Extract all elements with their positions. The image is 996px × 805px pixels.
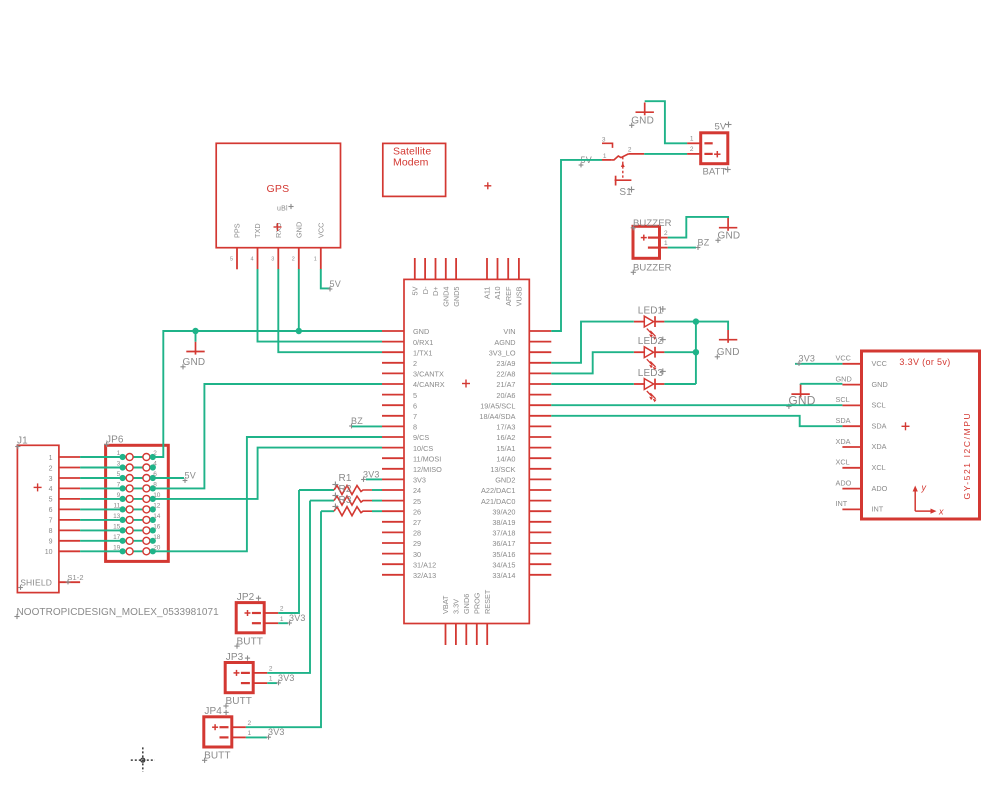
svg-text:VIN: VIN bbox=[503, 327, 515, 336]
svg-text:ADO: ADO bbox=[872, 484, 888, 493]
svg-text:33/A14: 33/A14 bbox=[492, 571, 515, 580]
svg-text:3V3: 3V3 bbox=[799, 354, 816, 364]
svg-text:18/A4/SDA: 18/A4/SDA bbox=[479, 412, 515, 421]
svg-text:2: 2 bbox=[292, 257, 295, 263]
svg-text:18: 18 bbox=[153, 534, 161, 541]
svg-text:8: 8 bbox=[49, 528, 53, 535]
svg-text:25: 25 bbox=[413, 497, 421, 506]
svg-text:1: 1 bbox=[690, 136, 694, 143]
svg-text:5: 5 bbox=[413, 391, 417, 400]
svg-text:4/CANRX: 4/CANRX bbox=[413, 380, 445, 389]
svg-text:BUZZER: BUZZER bbox=[633, 218, 672, 229]
svg-text:BUTT: BUTT bbox=[204, 751, 231, 762]
svg-text:10/CS: 10/CS bbox=[413, 444, 433, 453]
svg-text:D-: D- bbox=[421, 286, 430, 294]
svg-text:28: 28 bbox=[413, 529, 421, 538]
svg-text:RXD: RXD bbox=[274, 223, 283, 238]
svg-text:4: 4 bbox=[250, 257, 253, 263]
svg-text:SCL: SCL bbox=[836, 395, 850, 404]
svg-text:3/CANTX: 3/CANTX bbox=[413, 370, 444, 379]
svg-text:PPS: PPS bbox=[233, 223, 242, 238]
svg-text:2: 2 bbox=[248, 720, 252, 727]
svg-text:3V3: 3V3 bbox=[413, 476, 426, 485]
svg-text:1: 1 bbox=[269, 676, 273, 683]
svg-text:14: 14 bbox=[153, 513, 161, 520]
svg-text:2: 2 bbox=[269, 666, 273, 673]
svg-text:13: 13 bbox=[113, 513, 121, 520]
svg-text:0/RX1: 0/RX1 bbox=[413, 338, 433, 347]
svg-text:GND: GND bbox=[295, 222, 304, 238]
svg-text:2: 2 bbox=[690, 146, 694, 153]
svg-text:R1: R1 bbox=[339, 473, 352, 484]
svg-text:19: 19 bbox=[113, 545, 121, 552]
svg-text:SDA: SDA bbox=[872, 421, 887, 430]
svg-text:GND: GND bbox=[717, 347, 740, 358]
svg-text:4: 4 bbox=[49, 486, 53, 493]
svg-text:BZ: BZ bbox=[351, 416, 363, 426]
svg-text:S1-2: S1-2 bbox=[67, 573, 83, 582]
svg-text:AGND: AGND bbox=[494, 338, 515, 347]
svg-text:9: 9 bbox=[49, 539, 53, 546]
svg-text:SCL: SCL bbox=[872, 401, 886, 410]
svg-text:12/MISO: 12/MISO bbox=[413, 465, 442, 474]
svg-text:5: 5 bbox=[117, 471, 121, 478]
svg-text:A10: A10 bbox=[493, 287, 502, 300]
svg-text:2: 2 bbox=[280, 606, 284, 613]
svg-text:5: 5 bbox=[49, 497, 53, 504]
svg-text:XDA: XDA bbox=[872, 442, 887, 451]
svg-text:20/A6: 20/A6 bbox=[496, 391, 515, 400]
svg-text:3V3_LO: 3V3_LO bbox=[489, 348, 516, 357]
svg-text:A21/DAC0: A21/DAC0 bbox=[481, 497, 515, 506]
svg-text:x: x bbox=[938, 507, 944, 517]
svg-text:XDA: XDA bbox=[836, 437, 851, 446]
svg-text:14/A0: 14/A0 bbox=[496, 454, 515, 463]
svg-text:A22/DAC1: A22/DAC1 bbox=[481, 486, 515, 495]
svg-text:J1: J1 bbox=[17, 436, 28, 447]
svg-text:3.3V: 3.3V bbox=[452, 599, 461, 614]
svg-text:SDA: SDA bbox=[836, 416, 851, 425]
svg-text:VCC: VCC bbox=[317, 223, 326, 238]
svg-text:BUTT: BUTT bbox=[237, 636, 264, 647]
svg-text:R2: R2 bbox=[339, 484, 352, 495]
svg-text:37/A18: 37/A18 bbox=[492, 529, 515, 538]
svg-text:12: 12 bbox=[153, 503, 161, 510]
svg-text:15: 15 bbox=[113, 524, 121, 531]
svg-text:2: 2 bbox=[49, 465, 53, 472]
svg-text:3.3V (or 5v): 3.3V (or 5v) bbox=[899, 357, 950, 367]
svg-text:JP4: JP4 bbox=[204, 706, 222, 717]
svg-text:5V: 5V bbox=[330, 279, 341, 289]
svg-text:2: 2 bbox=[628, 147, 632, 154]
svg-text:y: y bbox=[921, 483, 927, 493]
svg-text:7: 7 bbox=[49, 518, 53, 525]
svg-text:23/A9: 23/A9 bbox=[496, 359, 515, 368]
svg-text:3: 3 bbox=[117, 461, 121, 468]
svg-text:1: 1 bbox=[664, 240, 668, 247]
svg-text:8: 8 bbox=[413, 423, 417, 432]
svg-text:S1: S1 bbox=[619, 187, 632, 198]
svg-text:26: 26 bbox=[413, 507, 421, 516]
svg-text:XCL: XCL bbox=[872, 463, 886, 472]
svg-text:NOOTROPICDESIGN_MOLEX_05339810: NOOTROPICDESIGN_MOLEX_0533981071 bbox=[17, 607, 220, 618]
svg-text:LED3: LED3 bbox=[638, 368, 664, 379]
svg-text:JP6: JP6 bbox=[106, 435, 124, 446]
svg-text:GY-521 I2C/MPU: GY-521 I2C/MPU bbox=[962, 412, 972, 500]
svg-text:36/A17: 36/A17 bbox=[492, 539, 515, 548]
svg-text:29: 29 bbox=[413, 539, 421, 548]
svg-text:GND: GND bbox=[718, 231, 741, 242]
svg-text:3V3: 3V3 bbox=[363, 470, 380, 480]
svg-text:INT: INT bbox=[872, 505, 884, 514]
svg-text:39/A20: 39/A20 bbox=[492, 507, 515, 516]
svg-text:38/A19: 38/A19 bbox=[492, 518, 515, 527]
svg-text:uBl: uBl bbox=[277, 206, 288, 213]
svg-text:D+: D+ bbox=[431, 287, 440, 297]
svg-text:VCC: VCC bbox=[836, 354, 851, 363]
svg-text:SHIELD: SHIELD bbox=[20, 578, 52, 588]
svg-text:GND: GND bbox=[183, 357, 206, 368]
svg-text:A11: A11 bbox=[483, 287, 492, 299]
svg-text:9/CS: 9/CS bbox=[413, 433, 429, 442]
svg-text:15/A1: 15/A1 bbox=[496, 444, 515, 453]
svg-text:5V: 5V bbox=[715, 122, 727, 133]
svg-text:2: 2 bbox=[664, 230, 668, 237]
svg-text:1: 1 bbox=[117, 450, 121, 457]
svg-text:JP3: JP3 bbox=[226, 652, 244, 663]
svg-text:3V3: 3V3 bbox=[268, 727, 285, 737]
svg-text:5V: 5V bbox=[411, 286, 420, 295]
svg-text:GPS: GPS bbox=[267, 183, 290, 195]
svg-text:VUSB: VUSB bbox=[515, 286, 524, 306]
svg-text:XCL: XCL bbox=[836, 458, 850, 467]
svg-text:9: 9 bbox=[117, 492, 121, 499]
svg-text:5: 5 bbox=[230, 257, 233, 263]
svg-text:GND: GND bbox=[631, 116, 654, 127]
svg-text:1: 1 bbox=[280, 616, 284, 623]
svg-text:1: 1 bbox=[314, 257, 317, 263]
svg-text:GND: GND bbox=[836, 374, 852, 383]
svg-text:JP2: JP2 bbox=[237, 592, 255, 603]
svg-text:INT: INT bbox=[836, 499, 848, 508]
svg-text:3V3: 3V3 bbox=[278, 673, 295, 683]
svg-text:17/A3: 17/A3 bbox=[496, 423, 515, 432]
svg-text:27: 27 bbox=[413, 518, 421, 527]
svg-text:LED2: LED2 bbox=[638, 336, 664, 347]
svg-text:GND: GND bbox=[413, 327, 429, 336]
svg-text:3: 3 bbox=[271, 257, 274, 263]
svg-text:2: 2 bbox=[413, 359, 417, 368]
svg-text:R3: R3 bbox=[339, 495, 352, 506]
svg-text:24: 24 bbox=[413, 486, 421, 495]
svg-text:AREF: AREF bbox=[504, 286, 513, 306]
svg-text:22/A8: 22/A8 bbox=[496, 370, 515, 379]
svg-text:TXD: TXD bbox=[253, 223, 262, 238]
svg-text:VCC: VCC bbox=[872, 359, 887, 368]
svg-text:GND2: GND2 bbox=[495, 476, 515, 485]
svg-text:RESET: RESET bbox=[483, 589, 492, 614]
svg-text:BATT: BATT bbox=[703, 167, 727, 178]
svg-text:31/A12: 31/A12 bbox=[413, 560, 436, 569]
svg-text:PROG: PROG bbox=[473, 592, 482, 614]
svg-text:LED1: LED1 bbox=[638, 306, 664, 317]
svg-text:GND6: GND6 bbox=[462, 594, 471, 614]
svg-text:6: 6 bbox=[49, 507, 53, 514]
svg-text:4: 4 bbox=[153, 461, 157, 468]
svg-text:11: 11 bbox=[114, 503, 121, 510]
svg-text:1: 1 bbox=[248, 730, 252, 737]
svg-text:ADO: ADO bbox=[836, 478, 852, 487]
svg-text:10: 10 bbox=[45, 549, 53, 556]
svg-text:GND4: GND4 bbox=[442, 287, 451, 307]
svg-text:GND: GND bbox=[872, 380, 888, 389]
svg-text:3: 3 bbox=[602, 137, 606, 144]
svg-text:19/A5/SCL: 19/A5/SCL bbox=[480, 401, 515, 410]
svg-text:BUZZER: BUZZER bbox=[633, 263, 672, 274]
svg-text:3: 3 bbox=[49, 476, 53, 483]
svg-text:34/A15: 34/A15 bbox=[492, 560, 515, 569]
svg-text:1/TX1: 1/TX1 bbox=[413, 348, 432, 357]
svg-text:7: 7 bbox=[117, 482, 121, 489]
svg-text:1: 1 bbox=[49, 455, 53, 462]
svg-text:17: 17 bbox=[113, 534, 121, 541]
svg-text:BZ: BZ bbox=[698, 238, 710, 248]
svg-text:Modem: Modem bbox=[393, 157, 429, 169]
svg-text:6: 6 bbox=[413, 401, 417, 410]
svg-text:16: 16 bbox=[153, 524, 161, 531]
svg-text:13/SCK: 13/SCK bbox=[490, 465, 515, 474]
svg-text:32/A13: 32/A13 bbox=[413, 571, 436, 580]
svg-text:7: 7 bbox=[413, 412, 417, 421]
svg-text:5V: 5V bbox=[185, 471, 196, 481]
svg-text:GND5: GND5 bbox=[452, 287, 461, 307]
svg-text:16/A2: 16/A2 bbox=[496, 433, 515, 442]
svg-text:1: 1 bbox=[603, 153, 607, 160]
svg-text:BUTT: BUTT bbox=[226, 696, 253, 707]
svg-text:35/A16: 35/A16 bbox=[492, 550, 515, 559]
svg-text:3V3: 3V3 bbox=[289, 613, 306, 623]
svg-text:VBAT: VBAT bbox=[441, 595, 450, 614]
svg-text:21/A7: 21/A7 bbox=[496, 380, 515, 389]
svg-text:11/MOSI: 11/MOSI bbox=[413, 454, 441, 463]
svg-text:30: 30 bbox=[413, 550, 421, 559]
